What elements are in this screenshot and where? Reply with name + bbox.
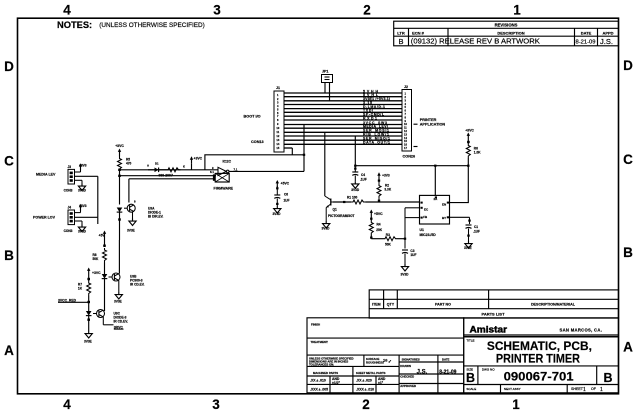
resistor R3 [371, 233, 406, 247]
svg-text:ECN #: ECN # [412, 30, 425, 35]
IC U1 [420, 195, 450, 236]
resistor R8 [93, 248, 107, 274]
svg-text:BY: BY [442, 216, 446, 220]
ground (J3) [75, 180, 87, 192]
svg-text:4: 4 [63, 397, 71, 412]
svg-text:SIGNATURES: SIGNATURES [402, 358, 420, 362]
svg-text:TOLERANCES ON:: TOLERANCES ON: [309, 363, 334, 367]
svg-text:PRINTER TIMER: PRINTER TIMER [496, 352, 580, 366]
connector J3 [64, 165, 75, 192]
svg-text:QTY: QTY [387, 303, 395, 307]
svg-text:2: 2 [277, 97, 279, 101]
svg-text:J2: J2 [404, 85, 408, 89]
net label 3VCC_RED [58, 299, 89, 303]
svg-text:DESCRIPTION/MATERIAL: DESCRIPTION/MATERIAL [531, 303, 576, 307]
svg-text:17: 17 [404, 146, 407, 150]
svg-text:4: 4 [405, 102, 407, 106]
power +5V (R8 top) [99, 231, 107, 248]
svg-text:13: 13 [404, 132, 407, 136]
resistor R2 [377, 172, 392, 202]
svg-text:5: 5 [277, 107, 279, 111]
power +3VC (R7 top) [87, 268, 101, 282]
svg-text:1: 1 [600, 387, 603, 393]
svg-text:15: 15 [404, 139, 407, 143]
svg-text:POWER LOV: POWER LOV [33, 216, 56, 220]
svg-text:8: 8 [277, 118, 279, 122]
capacitor C1 [450, 217, 481, 250]
svg-text:FIRMWARE: FIRMWARE [214, 186, 234, 190]
svg-text:C1: C1 [474, 225, 478, 229]
svg-text:8: 8 [134, 200, 136, 204]
svg-text:D1: D1 [155, 162, 159, 166]
svg-text:K: K [183, 165, 185, 169]
svg-text:R1 100: R1 100 [347, 196, 358, 200]
capacitor C3 [401, 249, 417, 276]
svg-text:✓: ✓ [388, 359, 392, 364]
svg-text:8-21-09: 8-21-09 [439, 370, 456, 376]
svg-text:7: 7 [405, 112, 407, 116]
svg-text:.XXX ± .005: .XXX ± .005 [310, 388, 328, 392]
svg-text:10: 10 [404, 122, 407, 126]
resistor R5 [118, 157, 132, 205]
wire U1 pin2 FB to C3 [405, 208, 420, 249]
svg-text:+3VC: +3VC [465, 129, 474, 133]
J2 right pin stubs [414, 124, 418, 146]
svg-text:B: B [623, 245, 633, 260]
buffer IC2C [212, 160, 238, 176]
svg-text:7.1: 7.1 [234, 168, 238, 172]
svg-text:3V3E: 3V3E [114, 300, 122, 304]
svg-text:A: A [147, 164, 149, 168]
svg-text:4: 4 [277, 104, 279, 108]
svg-text:2: 2 [405, 95, 407, 99]
svg-text:3V3E: 3V3E [464, 246, 472, 250]
svg-text:B: B [603, 371, 612, 385]
svg-text:PARTS LIST: PARTS LIST [481, 311, 505, 316]
svg-text:DATE: DATE [442, 358, 450, 362]
svg-text:JP1: JP1 [322, 70, 328, 74]
svg-text:14: 14 [404, 136, 407, 140]
svg-text:BI DIR.EV.: BI DIR.EV. [148, 215, 164, 219]
svg-text:C: C [623, 152, 633, 167]
svg-text:±1/2°: ±1/2° [332, 381, 341, 385]
svg-text:D: D [4, 59, 14, 74]
svg-text:50K: 50K [385, 243, 392, 247]
svg-text:1UF: 1UF [410, 253, 416, 257]
svg-text:BOOT I/O: BOOT I/O [244, 115, 261, 119]
transistor Q1 [322, 132, 355, 230]
svg-text:8-21-09: 8-21-09 [576, 40, 596, 46]
svg-text:R3: R3 [386, 233, 390, 237]
svg-text:TITLE: TITLE [466, 339, 474, 343]
svg-text:2: 2 [363, 3, 371, 18]
svg-text:3V3D: 3V3D [351, 188, 360, 192]
svg-text:15: 15 [276, 146, 279, 150]
svg-text:DWG NO: DWG NO [482, 368, 495, 372]
svg-text:.1UF: .1UF [473, 229, 480, 233]
svg-text:3: 3 [277, 101, 279, 105]
svg-text:13: 13 [276, 138, 279, 142]
svg-text:1: 1 [513, 3, 521, 18]
svg-text:A: A [623, 340, 633, 355]
svg-text:9: 9 [405, 119, 407, 123]
svg-text:CON3: CON3 [64, 188, 73, 192]
svg-text:MIC23./5D: MIC23./5D [420, 233, 437, 237]
svg-text:U1: U1 [420, 228, 424, 232]
wire bus J1 to J2 [284, 93, 402, 148]
power +3V3 (J3) [75, 163, 87, 172]
svg-text:3V3D: 3V3D [322, 226, 331, 230]
svg-text:1: 1 [512, 397, 520, 412]
svg-text:APPLICATION: APPLICATION [420, 122, 446, 126]
jumper JP1 [322, 70, 333, 101]
title block [464, 318, 619, 393]
svg-text:(UNLESS OTHERWISE SPECIFIED): (UNLESS OTHERWISE SPECIFIED) [99, 22, 205, 29]
optocoupler U3A [117, 200, 164, 241]
wire loop J1 pin13 to IC2C output [205, 125, 305, 172]
tolerance / signature block [307, 318, 464, 393]
svg-text:IR CD.EV.: IR CD.EV. [130, 283, 145, 287]
svg-text:C4: C4 [361, 173, 365, 177]
svg-text:090067-701: 090067-701 [504, 370, 574, 384]
svg-text:B: B [398, 37, 403, 46]
svg-text:(09132) RELEASE REV B ARTW: (09132) RELEASE REV B ARTWORK [411, 39, 540, 46]
svg-text:3V3D: 3V3D [273, 212, 282, 216]
svg-text:1: 1 [277, 93, 279, 97]
svg-text:20K: 20K [376, 228, 383, 232]
svg-text:1.0K: 1.0K [474, 151, 481, 155]
svg-text:Q1: Q1 [333, 208, 337, 212]
label PRINTER APPLICATION [420, 118, 446, 127]
wire firmware left pair [120, 176, 217, 203]
svg-text:3V3D: 3V3D [401, 273, 410, 277]
svg-text:IC2C: IC2C [223, 160, 232, 164]
svg-text:1K: 1K [78, 287, 83, 291]
capacitor C4 [351, 166, 367, 192]
svg-text:C6: C6 [284, 193, 288, 197]
svg-text:3: 3 [212, 397, 220, 412]
svg-text:SAN MARCOS, CA.: SAN MARCOS, CA. [560, 327, 603, 332]
svg-text:J.S.: J.S. [417, 370, 428, 376]
svg-text:470: 470 [126, 162, 132, 166]
svg-text:.1UF: .1UF [360, 178, 367, 182]
svg-text:3V3E: 3V3E [127, 229, 135, 233]
svg-text:D: D [623, 58, 633, 73]
svg-text:10: 10 [276, 126, 279, 130]
svg-text:LTR: LTR [397, 30, 405, 35]
svg-text:3V3E: 3V3E [84, 340, 92, 344]
svg-text:TREATMENT:: TREATMENT: [311, 340, 329, 344]
resistor R7 [78, 281, 91, 311]
svg-text:APPD: APPD [602, 30, 613, 35]
connector J2 [402, 85, 412, 151]
crystal FIRMWARE [210, 170, 234, 191]
svg-text:CON3: CON3 [64, 229, 73, 233]
svg-text:+3V3: +3V3 [79, 163, 87, 167]
optocoupler U3B [102, 240, 145, 311]
svg-text:J3: J3 [68, 165, 72, 169]
svg-text:50K: 50K [93, 257, 100, 261]
svg-text:FB: FB [423, 215, 428, 219]
svg-text:EC: EC [424, 207, 429, 211]
svg-text:SHEET METAL PARTS: SHEET METAL PARTS [356, 371, 386, 375]
bus net labels group 2 [363, 121, 390, 145]
svg-text:+3V3: +3V3 [382, 174, 390, 178]
svg-text:REVISIONS: REVISIONS [495, 23, 518, 28]
parts list table [369, 290, 618, 318]
svg-text:NEXT ASSY: NEXT ASSY [504, 387, 521, 391]
diode D1 989-2007 [147, 162, 166, 173]
svg-text:ROUGHNESS: ROUGHNESS [366, 361, 384, 365]
svg-text:14: 14 [276, 142, 279, 146]
svg-text:FINISH: FINISH [311, 323, 320, 327]
svg-text:CON13: CON13 [251, 140, 264, 144]
svg-text:8.1: 8.1 [210, 170, 214, 174]
svg-text:J4: J4 [68, 206, 72, 210]
svg-text:DATE: DATE [581, 30, 592, 35]
svg-text:J1: J1 [276, 86, 280, 90]
svg-text:MACHINED PARTS: MACHINED PARTS [313, 371, 338, 375]
revision table [394, 21, 619, 46]
svg-text:CON26: CON26 [403, 155, 416, 159]
svg-text:EN: EN [442, 203, 446, 207]
resistor R4 [369, 221, 382, 239]
svg-text:16: 16 [404, 143, 407, 147]
svg-text:SCALE: SCALE [466, 387, 476, 391]
svg-text:DESCRIPTION: DESCRIPTION [497, 30, 524, 35]
svg-text:APPROVED: APPROVED [400, 384, 416, 388]
notes text [57, 20, 205, 30]
svg-text:CHECKED: CHECKED [400, 375, 414, 379]
svg-text:.XX ± .010: .XX ± .010 [310, 379, 326, 383]
svg-text:5: 5 [405, 105, 407, 109]
wire input to IC2C [120, 169, 219, 171]
svg-text:B: B [466, 371, 475, 385]
power +3VC (at IC2C) [190, 156, 203, 170]
svg-text:.XXX ± .010: .XXX ± .010 [356, 388, 374, 392]
svg-text:3V3D: 3V3D [78, 229, 87, 233]
svg-text:SHEET: SHEET [571, 387, 584, 391]
svg-text:1UF: 1UF [284, 198, 290, 202]
svg-text:+5V: +5V [99, 234, 106, 238]
optocoupler U3C [84, 310, 128, 344]
svg-text:RXD1: RXD1 [363, 116, 377, 120]
net label 3RVC [102, 323, 104, 325]
svg-text:+5VC: +5VC [281, 181, 290, 185]
svg-text:A: A [4, 343, 14, 358]
svg-text:989-2007: 989-2007 [159, 174, 173, 178]
svg-text:C: C [4, 154, 14, 169]
svg-text:DRAWN: DRAWN [400, 364, 411, 368]
svg-text:+5VC: +5VC [374, 212, 383, 216]
wire J3 to J4 loop [75, 176, 98, 224]
svg-text:9: 9 [277, 122, 279, 126]
svg-text:7: 7 [277, 114, 279, 118]
wire R6 net to U1 [354, 136, 469, 203]
connector J4 [64, 206, 75, 233]
svg-text:Amistar: Amistar [470, 324, 508, 334]
connector J1 [274, 86, 284, 152]
svg-text:+3VC: +3VC [115, 144, 124, 148]
svg-text:OF: OF [591, 387, 597, 391]
svg-text:12: 12 [276, 134, 279, 138]
resistor R6 [465, 129, 481, 166]
svg-text:B: B [4, 248, 14, 263]
svg-text:6: 6 [405, 109, 407, 113]
svg-text:IR CD.EV.: IR CD.EV. [114, 320, 129, 324]
capacitor C6 (decoupling, +5VC) [273, 180, 290, 216]
svg-text:2: 2 [362, 397, 370, 412]
svg-text:±1°: ±1° [378, 381, 384, 385]
svg-text:6: 6 [277, 111, 279, 115]
svg-text:11: 11 [276, 130, 279, 134]
power +3VC (R5 top) [115, 144, 124, 157]
resistor 989-2007 [159, 165, 186, 178]
svg-text:4: 4 [63, 3, 71, 18]
svg-text:PART NO: PART NO [435, 303, 451, 307]
svg-text:ITEM: ITEM [372, 303, 381, 307]
svg-text:R4: R4 [377, 222, 381, 226]
svg-text:.XX ± .020: .XX ± .020 [356, 379, 372, 383]
svg-text:8: 8 [405, 115, 407, 119]
svg-text:+3VC: +3VC [92, 271, 101, 275]
resistor R1 [333, 196, 420, 205]
power +5VC (R4 top) [370, 210, 384, 221]
svg-text:DATA_OUT/1: DATA_OUT/1 [363, 141, 390, 145]
svg-text:PICTOGRAM/3OT: PICTOGRAM/3OT [328, 214, 355, 218]
svg-text:3.3K: 3.3K [384, 187, 391, 191]
bus net labels group 1 [363, 89, 390, 120]
power +3V3 (J4) [75, 204, 87, 213]
svg-text:PRINTER: PRINTER [420, 118, 437, 122]
svg-text:NOTES:: NOTES: [57, 20, 92, 30]
svg-text:+3V3: +3V3 [79, 204, 87, 208]
svg-text:1: 1 [405, 92, 407, 96]
svg-text:MEDIA LEV: MEDIA LEV [36, 172, 56, 176]
svg-text:1: 1 [583, 387, 586, 393]
svg-text:+3VC: +3VC [194, 157, 203, 161]
svg-text:3V3D: 3V3D [78, 188, 87, 192]
svg-text:J.S.: J.S. [600, 37, 613, 46]
svg-text:3: 3 [405, 98, 407, 102]
ground (J4) [75, 221, 87, 233]
svg-text:3: 3 [213, 3, 221, 18]
svg-text:12: 12 [404, 129, 407, 133]
